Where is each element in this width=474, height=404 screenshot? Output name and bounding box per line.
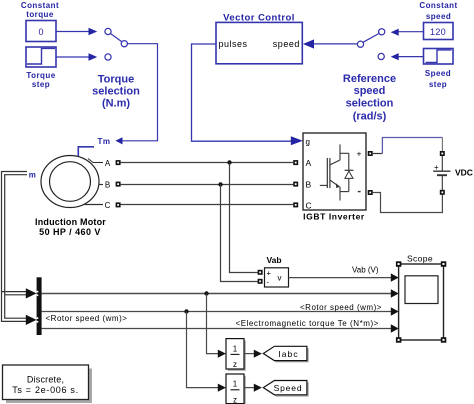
- junction phase A tap: [227, 160, 257, 272]
- motor output stub A: [88, 159, 103, 163]
- wire unit delay 2 to Speed tag: [244, 384, 262, 392]
- induction motor icon: [41, 156, 99, 208]
- scope selection handles: [396, 261, 446, 342]
- inverter port square minus: [368, 190, 373, 195]
- VDC label: [455, 168, 473, 178]
- svg-text:<Rotor speed (wm)>: <Rotor speed (wm)>: [46, 314, 128, 323]
- speed step label: [425, 69, 451, 89]
- motor output stub B: [99, 184, 104, 186]
- svg-text:z: z: [233, 360, 237, 369]
- svg-text:g: g: [306, 138, 310, 147]
- svg-text:A: A: [105, 159, 111, 168]
- svg-text:step: step: [32, 80, 50, 89]
- svg-text:Discrete,: Discrete,: [27, 375, 64, 385]
- wire branch to unit delay 1: [207, 294, 226, 358]
- wire constant speed to switch: [391, 29, 424, 36]
- svg-text:C: C: [306, 201, 312, 211]
- scope label: [407, 254, 433, 264]
- inverter port square C: [293, 202, 298, 207]
- svg-text:120: 120: [430, 27, 446, 37]
- svg-text:B: B: [105, 180, 110, 189]
- VDC battery icon: [433, 156, 450, 190]
- VDC port square minus: [440, 190, 445, 195]
- Vab label: [266, 255, 281, 265]
- svg-text:step: step: [429, 80, 447, 89]
- wire speed step to switch: [391, 53, 424, 60]
- svg-text:v: v: [278, 274, 282, 283]
- svg-text:Scope: Scope: [407, 254, 433, 264]
- induction motor label: [35, 217, 106, 237]
- svg-text:Vab: Vab: [266, 255, 281, 265]
- rotor speed signal label right: [300, 303, 382, 312]
- torque selection title: [92, 74, 140, 110]
- discrete sample time block: [3, 365, 93, 403]
- motor port label B: [105, 180, 110, 189]
- motor port square C: [116, 202, 121, 207]
- svg-text:IGBT Inverter: IGBT Inverter: [303, 212, 365, 222]
- unit delay 2: [226, 374, 246, 404]
- Tm port label: [98, 137, 111, 146]
- wire torque step to switch: [56, 53, 97, 60]
- svg-text:Speed: Speed: [274, 383, 303, 393]
- svg-text:Iabc: Iabc: [278, 349, 298, 359]
- wire phase C: [121, 204, 294, 206]
- reference speed selection title: [343, 73, 396, 123]
- VDC port square plus: [440, 151, 445, 156]
- svg-text:selection: selection: [92, 86, 140, 98]
- goto tag Iabc: [263, 346, 308, 362]
- manual switch (torque selection): [105, 28, 128, 60]
- svg-text:torque: torque: [26, 10, 54, 19]
- svg-text:Speed: Speed: [425, 69, 451, 78]
- svg-text:Constant: Constant: [419, 1, 457, 10]
- wire Vab to scope input 1: [289, 273, 399, 281]
- svg-text:VDC: VDC: [455, 168, 473, 178]
- IGBT inverter icon: [320, 144, 354, 200]
- junction phase B tap: [218, 182, 257, 281]
- Vab voltage measurement block: [265, 268, 289, 287]
- wire selector output 3 (torque) to scope input 4: [42, 324, 399, 332]
- wire switch to Tm: [115, 44, 157, 145]
- svg-text:+: +: [267, 269, 272, 278]
- svg-text:Torque: Torque: [26, 71, 55, 80]
- vector control title: [223, 13, 295, 24]
- wire speed switch to vector control: [303, 39, 357, 48]
- Vab port square minus: [258, 279, 263, 284]
- m port label: [29, 171, 37, 180]
- svg-text:z: z: [233, 395, 237, 404]
- wire branch to unit delay 2: [187, 312, 226, 392]
- motor output stub C: [83, 204, 103, 206]
- svg-text:0: 0: [38, 27, 43, 37]
- svg-text:speed: speed: [426, 12, 451, 21]
- electromagnetic torque signal label: [236, 319, 379, 328]
- Tm port stub on motor: [78, 147, 94, 157]
- constant torque block (value 0): [26, 21, 56, 42]
- svg-text:m: m: [29, 171, 37, 180]
- torque step block: [26, 47, 56, 67]
- vector control block: [216, 22, 302, 63]
- svg-text:(rad/s): (rad/s): [353, 111, 387, 123]
- svg-text:<Rotor speed (wm)>: <Rotor speed (wm)>: [300, 303, 382, 312]
- svg-text:selection: selection: [346, 98, 394, 110]
- svg-text:1: 1: [233, 344, 238, 353]
- wire phase A: [121, 162, 294, 164]
- constant speed label: [419, 1, 457, 21]
- wire pulses to inverter g: [192, 44, 303, 145]
- motor port label A: [105, 159, 111, 168]
- svg-text:Reference: Reference: [343, 73, 396, 85]
- svg-text:Torque: Torque: [98, 74, 134, 86]
- constant torque label: [21, 1, 59, 19]
- IGBT inverter block: [303, 133, 366, 211]
- svg-text:pulses: pulses: [219, 39, 248, 49]
- wire phase B: [121, 184, 294, 186]
- svg-text:+: +: [434, 163, 439, 172]
- torque step label: [26, 71, 55, 89]
- scope block: [399, 264, 444, 340]
- svg-text:Constant: Constant: [21, 1, 59, 10]
- svg-text:C: C: [105, 201, 111, 210]
- motor port square B: [116, 182, 121, 187]
- junction on rotor bus output 1: [204, 291, 208, 295]
- junction on rotor speed wire: [184, 309, 188, 313]
- svg-text:50 HP / 460 V: 50 HP / 460 V: [39, 227, 101, 237]
- IGBT inverter label: [303, 212, 365, 222]
- bus selector bar: [37, 277, 42, 335]
- wire unit delay 1 to Iabc tag: [244, 350, 262, 358]
- svg-text:speed: speed: [354, 85, 386, 97]
- svg-text:+: +: [357, 149, 362, 159]
- svg-text:A: A: [306, 158, 312, 168]
- inverter port square B: [293, 182, 298, 187]
- svg-text:speed: speed: [273, 39, 300, 49]
- Vab (V) signal label: [352, 266, 379, 275]
- inverter port square A: [293, 160, 298, 165]
- goto tag Speed: [263, 381, 308, 397]
- svg-text:Vab (V): Vab (V): [352, 266, 379, 275]
- manual switch (speed selection): [357, 29, 384, 60]
- inverter port square plus: [368, 151, 373, 156]
- wire inverter minus to VDC minus: [373, 193, 443, 213]
- motor port label C: [105, 201, 111, 210]
- constant speed block (120): [424, 23, 454, 40]
- motor port square A: [116, 160, 121, 165]
- measurement bus m (double line): [1, 171, 27, 322]
- svg-text:Ts = 2e-006 s.: Ts = 2e-006 s.: [12, 385, 79, 395]
- svg-text:(N.m): (N.m): [102, 98, 130, 110]
- rotor speed signal label left: [46, 314, 128, 323]
- svg-text:Tm: Tm: [98, 137, 111, 146]
- wire inverter plus to VDC plus: [373, 138, 443, 154]
- svg-text:B: B: [306, 180, 312, 190]
- svg-text:<Electromagnetic torque Te (N*: <Electromagnetic torque Te (N*m)>: [236, 319, 379, 328]
- wire selector output 1 to scope input 2: [42, 289, 399, 297]
- speed step block: [424, 49, 454, 65]
- wire constant torque to switch: [56, 28, 97, 35]
- bus arrow into selector input 1: [26, 288, 37, 298]
- svg-text:Induction Motor: Induction Motor: [35, 217, 106, 227]
- wire selector output 2 (rotor speed) to scope input 3: [42, 307, 399, 315]
- Vab port square plus: [258, 270, 263, 275]
- bus arrow into selector input 2: [26, 315, 37, 325]
- unit delay 1: [226, 339, 246, 371]
- svg-text:1: 1: [233, 379, 238, 388]
